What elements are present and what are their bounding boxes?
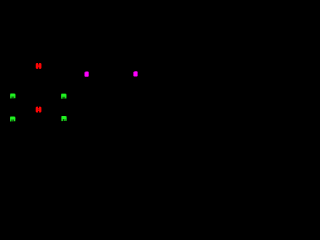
atom Cl3 (lower-left chlorine label) (10, 116, 15, 121)
atom Cl2 (upper-right chlorine label) (61, 93, 66, 98)
atom Cl1 (upper-left chlorine label) (10, 93, 15, 98)
molecule depiction: chlorinated quinone fragment + diiodo fragment, black background (0, 0, 222, 139)
atom Cl4 (lower-right chlorine label) (61, 116, 66, 121)
atom O1 (top oxygen label) (36, 63, 42, 69)
atom I1 (left iodine label) (84, 71, 88, 77)
atom O2 (lower oxygen label) (36, 107, 42, 113)
atom I2 (right iodine label) (133, 71, 137, 77)
